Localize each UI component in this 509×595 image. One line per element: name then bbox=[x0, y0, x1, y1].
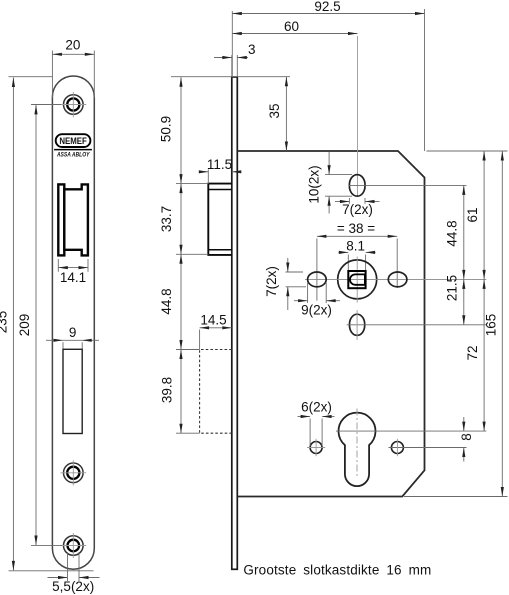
dimension 60 bbox=[232, 33, 357, 35]
svg-text:44.8: 44.8 bbox=[445, 220, 460, 246]
svg-text:235: 235 bbox=[0, 311, 9, 334]
svg-text:35: 35 bbox=[267, 103, 282, 118]
dimension 20 bbox=[51, 51, 53, 99]
svg-text:61: 61 bbox=[465, 207, 480, 222]
vertical dimension chain 50.9 / 33.7 / 44.8 / 39.8 bbox=[171, 76, 290, 78]
svg-text:10(2x): 10(2x) bbox=[306, 165, 321, 203]
svg-text:33.7: 33.7 bbox=[159, 206, 174, 232]
dimension 35 bbox=[285, 77, 287, 151]
dimension 209 bbox=[31, 104, 61, 106]
follower hole circle bbox=[338, 260, 377, 299]
svg-text:72: 72 bbox=[465, 345, 480, 360]
svg-text:92.5: 92.5 bbox=[314, 0, 340, 14]
dimension 7(2x) left hole bbox=[286, 271, 304, 273]
middle screw hole bbox=[64, 463, 84, 483]
svg-text:7(2x): 7(2x) bbox=[264, 266, 279, 297]
euro cylinder hole bbox=[339, 413, 376, 486]
svg-text:ASSA ABLOY: ASSA ABLOY bbox=[56, 151, 90, 158]
dimension 44.8 / 21.5 right bbox=[463, 185, 465, 324]
dimension 14.1 bbox=[57, 259, 59, 272]
svg-text:8.1: 8.1 bbox=[346, 238, 365, 253]
svg-text:20: 20 bbox=[65, 37, 80, 52]
dimension 10(2x) bbox=[325, 174, 352, 176]
follower square bbox=[348, 271, 365, 288]
fixing hole left bbox=[310, 442, 322, 454]
bottom screw hole bbox=[64, 536, 84, 556]
svg-text:14.5: 14.5 bbox=[200, 313, 226, 328]
dimension 3 bbox=[231, 55, 233, 77]
dimension 165 right bbox=[427, 150, 508, 152]
NEMEF logo bbox=[56, 134, 91, 147]
svg-text:7(2x): 7(2x) bbox=[342, 202, 373, 217]
auxiliary oval hole (lower) bbox=[350, 314, 365, 335]
svg-text:60: 60 bbox=[284, 19, 299, 34]
faceplate strip side view bbox=[232, 77, 238, 569]
svg-text:9(2x): 9(2x) bbox=[301, 303, 332, 318]
svg-text:209: 209 bbox=[17, 314, 32, 337]
svg-text:11.5: 11.5 bbox=[207, 157, 232, 172]
svg-text:9: 9 bbox=[69, 325, 77, 340]
dimension 7(2x) top oval bbox=[348, 198, 350, 204]
follower insert D-shape bbox=[350, 274, 365, 284]
dimension 61 / 72 right bbox=[483, 151, 485, 431]
svg-text:6(2x): 6(2x) bbox=[301, 399, 332, 414]
svg-text:165: 165 bbox=[483, 314, 498, 337]
svg-text:5,5(2x): 5,5(2x) bbox=[52, 579, 94, 594]
deadbolt hidden outline (dashed) bbox=[200, 350, 232, 434]
dimension 9(2x) bbox=[307, 282, 309, 303]
svg-text:= 38 =: = 38 = bbox=[337, 221, 375, 236]
lock case outline bbox=[237, 151, 424, 497]
dimension 5,5(2x) bbox=[67, 552, 69, 581]
dimension 235 bbox=[9, 76, 53, 78]
svg-text:NEMEF: NEMEF bbox=[59, 136, 87, 147]
svg-text:14.1: 14.1 bbox=[60, 270, 86, 285]
svg-text:44.8: 44.8 bbox=[159, 288, 174, 314]
spindle oval hole (top) bbox=[349, 175, 365, 197]
latch bolt side view bbox=[208, 184, 232, 255]
dimension 8 right bbox=[463, 417, 465, 431]
right side hole ellipse bbox=[388, 272, 407, 287]
svg-text:39.8: 39.8 bbox=[160, 377, 175, 403]
svg-text:3: 3 bbox=[248, 42, 256, 57]
left side hole ellipse bbox=[308, 272, 327, 287]
dimension 92.5 bbox=[231, 11, 233, 77]
fixing hole right bbox=[391, 442, 403, 454]
latch cutout on faceplate bbox=[58, 184, 64, 255]
top screw hole bbox=[64, 95, 84, 115]
svg-text:50.9: 50.9 bbox=[159, 116, 174, 142]
svg-text:Grootste slotkastdikte 16 mm: Grootste slotkastdikte 16 mm bbox=[243, 563, 431, 578]
svg-text:8: 8 bbox=[459, 433, 474, 441]
deadbolt cutout front bbox=[63, 349, 82, 433]
faceplate front view outline bbox=[52, 76, 94, 569]
svg-text:21.5: 21.5 bbox=[445, 275, 460, 301]
